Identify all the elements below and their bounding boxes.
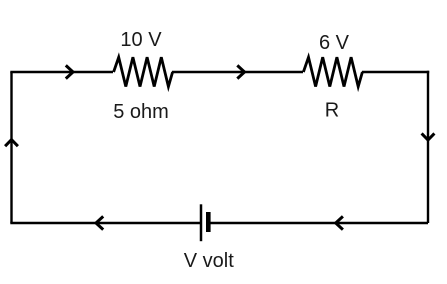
svg-text:6 V: 6 V bbox=[319, 32, 350, 54]
svg-text:R: R bbox=[325, 99, 339, 121]
svg-text:10 V: 10 V bbox=[120, 29, 162, 51]
svg-text:V volt: V volt bbox=[184, 250, 234, 272]
svg-text:5 ohm: 5 ohm bbox=[113, 101, 169, 123]
